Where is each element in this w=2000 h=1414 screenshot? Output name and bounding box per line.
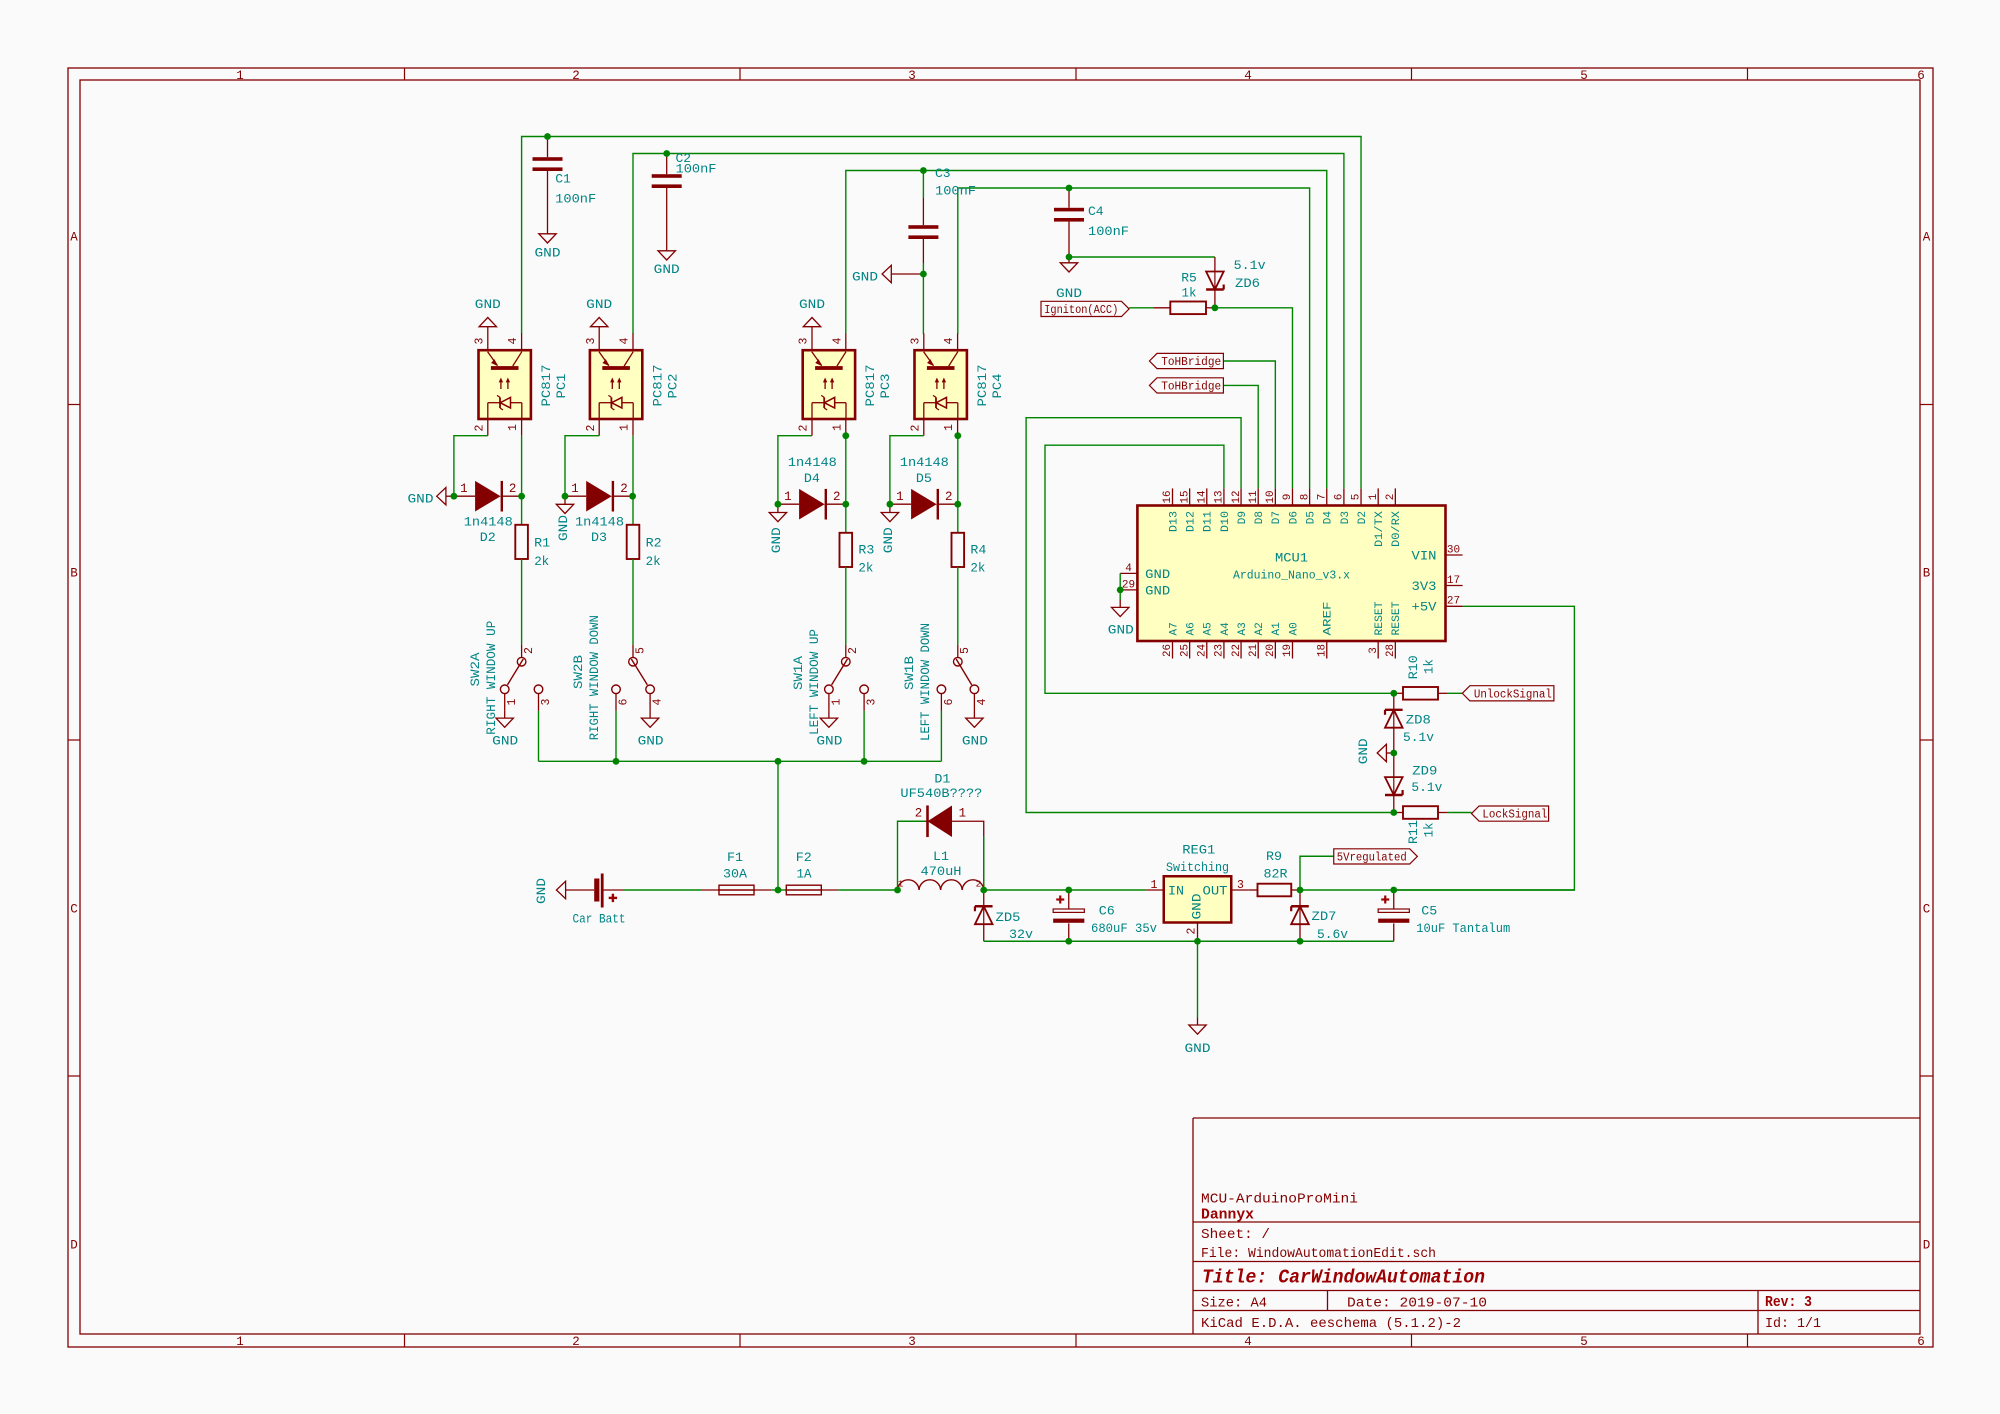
svg-text:16: 16 [1162,491,1174,504]
svg-text:MCU1: MCU1 [1275,551,1308,566]
svg-text:28: 28 [1385,644,1397,657]
svg-text:29: 29 [1122,579,1135,591]
svg-text:2: 2 [976,878,982,889]
svg-text:1: 1 [460,482,468,496]
svg-text:LockSignal: LockSignal [1482,809,1547,822]
svg-text:A3: A3 [1237,622,1249,635]
svg-text:GND: GND [535,246,561,261]
svg-text:AREF: AREF [1323,602,1335,636]
svg-text:D0/RX: D0/RX [1391,511,1403,547]
svg-text:C: C [1923,902,1931,916]
svg-text:5: 5 [1580,69,1588,83]
svg-text:1: 1 [959,806,967,820]
svg-text:20: 20 [1265,644,1277,657]
svg-text:A5: A5 [1203,622,1215,635]
svg-text:GND: GND [556,515,571,541]
svg-text:6: 6 [1334,494,1346,501]
svg-text:1k: 1k [1421,822,1436,837]
svg-text:3: 3 [909,337,922,344]
svg-text:D4: D4 [1323,511,1335,525]
svg-text:5.6v: 5.6v [1317,927,1348,942]
svg-text:8: 8 [1299,494,1311,501]
svg-text:PC817: PC817 [863,365,878,407]
svg-text:3: 3 [865,698,878,705]
svg-text:ToHBridge: ToHBridge [1161,380,1221,393]
svg-text:SW2B: SW2B [571,655,586,689]
svg-text:1k: 1k [1182,286,1197,301]
svg-text:SW2A: SW2A [468,652,483,686]
svg-text:PC2: PC2 [665,374,680,399]
svg-text:GND: GND [799,297,825,312]
svg-text:21: 21 [1248,644,1260,657]
svg-text:GND: GND [408,492,434,507]
svg-text:GND: GND [852,270,878,285]
svg-text:SW1A: SW1A [791,656,806,690]
svg-text:2: 2 [833,490,841,504]
svg-text:PC817: PC817 [650,365,665,407]
svg-text:14: 14 [1196,490,1208,503]
svg-text:D2: D2 [480,530,496,545]
svg-text:2: 2 [798,424,811,431]
svg-text:2: 2 [847,647,860,654]
svg-text:26: 26 [1162,644,1174,657]
svg-text:5.1v: 5.1v [1411,780,1442,795]
svg-text:3: 3 [908,1335,916,1349]
svg-text:D3: D3 [591,530,607,545]
svg-text:13: 13 [1214,491,1226,504]
svg-text:R9: R9 [1266,849,1282,864]
svg-text:Arduino_Nano_v3.x: Arduino_Nano_v3.x [1233,568,1350,582]
svg-text:2k: 2k [646,554,661,569]
svg-text:3V3: 3V3 [1412,580,1437,594]
svg-text:3: 3 [798,337,811,344]
svg-text:ToHBridge: ToHBridge [1161,356,1221,369]
svg-text:11: 11 [1248,490,1260,503]
svg-text:PC4: PC4 [990,373,1005,398]
svg-text:1: 1 [1368,493,1380,500]
svg-text:ZD8: ZD8 [1406,713,1431,728]
svg-text:1: 1 [571,482,579,496]
svg-text:12: 12 [1231,491,1243,504]
svg-text:D11: D11 [1203,511,1215,532]
svg-text:5.1v: 5.1v [1403,730,1434,745]
svg-text:ZD6: ZD6 [1235,276,1260,291]
svg-text:PC817: PC817 [975,365,990,407]
svg-text:2: 2 [1385,494,1397,501]
svg-text:D13: D13 [1168,511,1180,532]
svg-text:GND: GND [1108,623,1134,638]
svg-text:1: 1 [506,698,519,705]
svg-text:2: 2 [572,1335,580,1349]
svg-text:1: 1 [943,424,956,431]
svg-text:4: 4 [831,337,844,344]
svg-text:Car Batt: Car Batt [573,911,626,926]
svg-text:7: 7 [1316,494,1328,501]
svg-text:D10: D10 [1220,511,1232,532]
svg-text:2: 2 [620,482,628,496]
svg-text:22: 22 [1231,644,1243,657]
svg-text:D4: D4 [804,471,820,486]
svg-text:10: 10 [1265,491,1277,504]
svg-text:6: 6 [1917,1335,1925,1349]
svg-text:24: 24 [1196,644,1208,657]
svg-text:L1: L1 [933,849,949,864]
svg-text:GND: GND [654,262,680,277]
svg-text:18: 18 [1316,644,1328,657]
svg-text:A7: A7 [1168,622,1180,635]
svg-text:ZD7: ZD7 [1312,909,1337,924]
svg-text:GND: GND [586,297,612,312]
svg-text:C4: C4 [1088,204,1104,219]
svg-text:1: 1 [236,1335,244,1349]
svg-text:Rev: 3: Rev: 3 [1765,1295,1812,1311]
svg-text:D8: D8 [1254,511,1266,524]
svg-text:2: 2 [1186,927,1199,934]
svg-text:PC3: PC3 [878,374,893,399]
svg-text:A4: A4 [1220,622,1232,636]
svg-text:2: 2 [473,424,486,431]
svg-text:IN: IN [1168,884,1184,898]
svg-text:3: 3 [908,69,916,83]
svg-text:D: D [1923,1238,1931,1252]
svg-text:1: 1 [896,490,904,504]
svg-text:PC1: PC1 [554,373,569,398]
svg-text:F2: F2 [796,850,812,865]
svg-text:1k: 1k [1421,659,1436,674]
svg-text:Igniton(ACC): Igniton(ACC) [1044,304,1118,317]
svg-text:1n4148: 1n4148 [464,515,513,530]
svg-text:SW1B: SW1B [902,656,917,690]
svg-text:C3: C3 [935,166,951,181]
svg-text:F1: F1 [727,850,743,865]
svg-text:R4: R4 [970,542,986,557]
svg-text:D9: D9 [1237,511,1249,524]
svg-text:Dannyx: Dannyx [1201,1208,1254,1224]
svg-text:R3: R3 [858,542,874,557]
svg-text:B: B [70,566,78,580]
svg-text:Switching: Switching [1166,860,1229,875]
svg-text:2: 2 [509,482,517,496]
svg-text:D12: D12 [1186,511,1198,532]
svg-text:Title: CarWindowAutomation: Title: CarWindowAutomation [1202,1267,1485,1289]
svg-text:27: 27 [1447,596,1460,608]
svg-text:OUT: OUT [1203,884,1229,898]
svg-text:C1: C1 [555,172,571,187]
svg-text:GND: GND [962,733,988,748]
svg-text:A6: A6 [1186,622,1198,635]
svg-text:GND: GND [1145,568,1170,582]
svg-text:KiCad E.D.A. eeschema (5.1.2): KiCad E.D.A. eeschema (5.1.2)-2 [1201,1317,1461,1332]
svg-text:5: 5 [1580,1335,1588,1349]
svg-text:5: 5 [634,647,647,654]
svg-text:A0: A0 [1288,622,1300,635]
svg-text:4: 4 [651,698,664,705]
svg-text:1: 1 [507,424,520,431]
svg-text:15: 15 [1179,491,1191,504]
svg-text:RIGHT WINDOW DOWN: RIGHT WINDOW DOWN [587,615,602,740]
svg-text:ZD9: ZD9 [1412,764,1437,779]
svg-text:25: 25 [1179,644,1191,657]
svg-text:D2: D2 [1357,511,1369,524]
svg-text:B: B [1923,566,1931,580]
svg-text:Id: 1/1: Id: 1/1 [1765,1317,1821,1332]
svg-text:3: 3 [540,698,553,705]
svg-text:32v: 32v [1009,927,1033,942]
svg-text:ZD5: ZD5 [996,910,1021,925]
svg-text:4: 4 [1125,563,1132,575]
svg-text:UF540B????: UF540B???? [900,786,982,801]
svg-text:2: 2 [585,424,598,431]
svg-text:D1/TX: D1/TX [1374,511,1386,547]
svg-text:Date: 2019-07-10: Date: 2019-07-10 [1347,1296,1487,1311]
svg-text:MCU-ArduinoProMini: MCU-ArduinoProMini [1201,1191,1358,1207]
svg-text:4: 4 [976,698,989,705]
svg-text:C: C [70,902,78,916]
svg-text:D5: D5 [916,471,932,486]
svg-text:2k: 2k [858,560,873,575]
svg-text:4: 4 [619,337,632,344]
svg-text:C5: C5 [1421,904,1437,919]
svg-text:R2: R2 [646,536,662,551]
svg-text:LEFT WINDOW UP: LEFT WINDOW UP [807,629,822,735]
svg-text:100nF: 100nF [935,184,976,199]
svg-text:GND: GND [475,297,501,312]
svg-text:D1: D1 [934,772,950,787]
svg-text:A1: A1 [1271,622,1283,636]
svg-text:82R: 82R [1264,866,1288,881]
svg-text:R5: R5 [1181,271,1197,286]
svg-text:RESET: RESET [1391,601,1403,635]
svg-text:GND: GND [769,527,784,553]
svg-text:R11: R11 [1406,820,1421,844]
svg-text:GND: GND [534,878,549,904]
svg-text:REG1: REG1 [1182,843,1215,858]
svg-text:5: 5 [959,647,972,654]
svg-text:GND: GND [1356,738,1371,764]
svg-text:2k: 2k [534,554,549,569]
svg-text:C6: C6 [1099,904,1115,919]
svg-text:D6: D6 [1288,511,1300,524]
svg-text:5: 5 [1351,494,1363,501]
svg-text:RESET: RESET [1374,601,1386,635]
svg-text:R10: R10 [1406,655,1421,679]
svg-text:GND: GND [881,527,896,553]
svg-text:30: 30 [1447,544,1460,556]
svg-text:30A: 30A [723,867,747,882]
svg-text:D: D [70,1238,78,1252]
svg-text:470uH: 470uH [921,864,962,879]
svg-text:19: 19 [1282,644,1294,657]
svg-text:100nF: 100nF [676,162,717,177]
svg-text:1: 1 [1151,879,1158,892]
svg-text:LEFT WINDOW DOWN: LEFT WINDOW DOWN [918,623,933,741]
svg-text:1: 1 [830,698,843,705]
svg-text:17: 17 [1447,575,1460,587]
svg-text:VIN: VIN [1412,549,1437,563]
svg-text:5Vregulated: 5Vregulated [1337,851,1407,864]
svg-text:4: 4 [943,337,956,344]
svg-text:6: 6 [617,698,630,705]
svg-text:1: 1 [831,424,844,431]
svg-text:2: 2 [915,806,923,820]
svg-text:3: 3 [585,337,598,344]
svg-text:R1: R1 [534,536,550,551]
svg-text:A2: A2 [1254,622,1266,635]
svg-text:+5V: +5V [1412,601,1438,615]
svg-text:5.1v: 5.1v [1234,258,1266,273]
svg-text:UnlockSignal: UnlockSignal [1474,688,1552,701]
svg-text:6: 6 [943,698,956,705]
svg-text:2: 2 [572,69,580,83]
svg-text:6: 6 [1917,69,1925,83]
svg-text:D3: D3 [1340,511,1352,524]
svg-text:1n4148: 1n4148 [900,455,949,470]
svg-text:Sheet: /: Sheet: / [1201,1228,1270,1243]
svg-text:4: 4 [1244,1335,1252,1349]
svg-text:9: 9 [1282,494,1294,501]
svg-text:4: 4 [1244,69,1252,83]
svg-text:GND: GND [1185,1041,1211,1056]
svg-text:1: 1 [784,490,792,504]
svg-text:23: 23 [1214,644,1226,657]
svg-text:2k: 2k [970,560,985,575]
svg-text:RIGHT WINDOW UP: RIGHT WINDOW UP [484,621,499,735]
svg-text:D5: D5 [1306,511,1318,524]
svg-text:2: 2 [945,490,953,504]
svg-text:GND: GND [1145,584,1170,598]
svg-text:3: 3 [473,337,486,344]
svg-text:Size: A4: Size: A4 [1201,1296,1267,1311]
svg-text:GND: GND [1056,286,1082,301]
svg-text:A: A [70,230,78,244]
svg-text:2: 2 [523,647,536,654]
svg-text:File: WindowAutomationEdit.sch: File: WindowAutomationEdit.sch [1201,1247,1436,1262]
svg-text:680uF 35v: 680uF 35v [1091,921,1157,936]
svg-text:1: 1 [236,69,244,83]
svg-text:2: 2 [909,424,922,431]
svg-text:GND: GND [638,733,664,748]
svg-text:D7: D7 [1271,511,1283,524]
svg-text:GND: GND [1190,894,1204,920]
svg-text:10uF Tantalum: 10uF Tantalum [1416,921,1510,936]
svg-text:A: A [1923,230,1931,244]
svg-text:3: 3 [1368,647,1380,654]
svg-text:4: 4 [507,337,520,344]
svg-text:1n4148: 1n4148 [788,455,837,470]
svg-text:1n4148: 1n4148 [575,515,624,530]
svg-text:1: 1 [619,424,632,431]
svg-text:PC817: PC817 [539,365,554,407]
svg-text:1A: 1A [797,867,812,882]
svg-text:100nF: 100nF [1088,224,1129,239]
svg-text:100nF: 100nF [555,192,596,207]
